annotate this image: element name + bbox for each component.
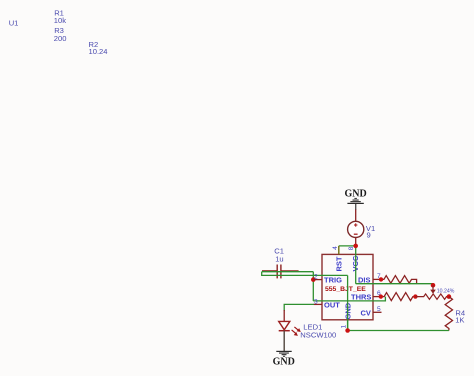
- svg-text:200: 200: [54, 34, 67, 43]
- LED LED1 NSCW100: [279, 310, 336, 351]
- resistor R4 1K: [445, 297, 465, 331]
- svg-text:CV: CV: [361, 308, 371, 317]
- svg-text:GND: GND: [345, 189, 367, 200]
- svg-text:3: 3: [314, 298, 318, 305]
- wire VCC rail right: [356, 284, 433, 286]
- wire ground rail bottom: [348, 330, 449, 332]
- svg-text:1u: 1u: [275, 255, 283, 264]
- wire TRIG drop: [312, 272, 314, 301]
- junction R3-R2: [413, 294, 417, 298]
- ground flag GND top: [345, 189, 367, 211]
- svg-text:10k: 10k: [54, 16, 66, 25]
- svg-text:8: 8: [348, 246, 355, 250]
- svg-text:4: 4: [332, 246, 339, 250]
- pin 4 lead: [338, 246, 340, 255]
- pin 6 THRS stub: [373, 296, 381, 298]
- wire VCC vertical through IC: [355, 246, 357, 284]
- potentiometer R2 body: [415, 294, 449, 299]
- wire C1 left U-turn: [262, 272, 348, 276]
- capacitor C1 1u: [262, 246, 299, 278]
- svg-text:DIS: DIS: [358, 275, 371, 284]
- pin 1 GND stub: [347, 320, 349, 331]
- svg-text:555_BJT_EE: 555_BJT_EE: [325, 286, 366, 293]
- svg-text:1K: 1K: [455, 316, 464, 325]
- junction DIS: [379, 277, 383, 281]
- pin 5 CV stub: [373, 311, 382, 313]
- svg-text:U1: U1: [9, 19, 19, 28]
- junction wiper tap: [431, 283, 436, 288]
- wire VCC top horizontal: [339, 245, 356, 247]
- svg-text:10.24%: 10.24%: [437, 288, 455, 294]
- wire THRS under IC: [313, 297, 385, 301]
- svg-text:10.24: 10.24: [89, 47, 108, 56]
- junction TRIG: [311, 277, 316, 282]
- pin 7 DIS stub: [373, 278, 381, 280]
- junction IC GND pin: [345, 328, 350, 333]
- svg-text:RST: RST: [335, 256, 344, 271]
- resistor R3 200 (THRS series): [381, 293, 416, 301]
- junction THRS: [379, 294, 383, 298]
- svg-text:OUT: OUT: [324, 300, 340, 309]
- svg-text:9: 9: [367, 230, 371, 239]
- svg-text:NSCW100: NSCW100: [300, 331, 336, 340]
- pin 3 OUT stub: [314, 303, 323, 305]
- wire C1 ground drop through IC: [347, 275, 349, 330]
- voltage source V1 9: [348, 210, 376, 245]
- svg-text:GND: GND: [273, 357, 295, 368]
- resistor R1 10k (DIS to VCC): [381, 276, 417, 284]
- svg-text:TRIG: TRIG: [324, 276, 342, 285]
- pin 2 TRIG stub: [313, 279, 322, 281]
- svg-text:1: 1: [341, 325, 348, 329]
- potentiometer wiper arrow: [430, 285, 436, 293]
- svg-text:THRS: THRS: [351, 292, 371, 301]
- junction at V1 output: [353, 244, 358, 249]
- ground flag GND bottom: [273, 351, 295, 368]
- IC U1 555_BJT_EE body: [322, 254, 373, 319]
- svg-text:2: 2: [314, 274, 318, 281]
- wire OUT to LED: [284, 304, 314, 311]
- svg-text:5: 5: [377, 306, 381, 313]
- wire C1 right to TRIG: [262, 271, 314, 273]
- junction R2-R4: [447, 294, 452, 299]
